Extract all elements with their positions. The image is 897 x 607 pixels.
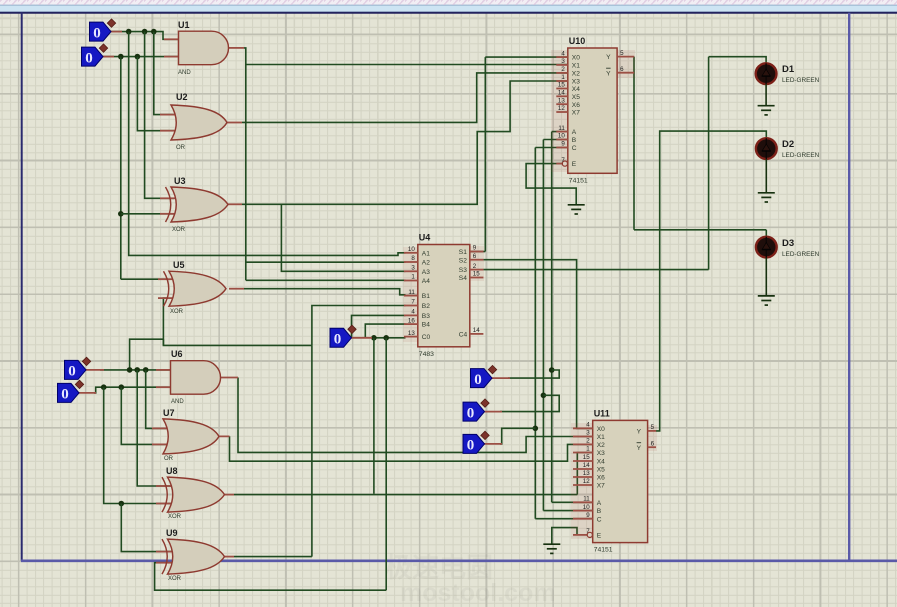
svg-text:10: 10 (583, 504, 590, 511)
svg-text:10: 10 (408, 246, 415, 253)
wire select B: U10.B to U11.B (542, 140, 544, 511)
svg-text:2: 2 (473, 263, 477, 270)
svg-text:6: 6 (620, 66, 624, 73)
wire net U4.S3 to LED column (483, 269, 708, 271)
wire net U10.X0 to U4.S1 (vertical x485.3) (484, 57, 486, 251)
svg-text:B4: B4 (422, 322, 430, 329)
svg-text:7: 7 (561, 157, 565, 164)
wire net U3.out to U10.X3 / X0 riser (242, 81, 568, 204)
svg-text:X4: X4 (572, 86, 580, 93)
svg-text:11: 11 (558, 125, 565, 132)
chip U10 74151 multiplexer (568, 48, 617, 173)
wire D1 riser x708.6 (708, 57, 710, 270)
wire net U11.Y to D2 (656, 131, 766, 431)
wire select A: U10.A to U11.A (551, 132, 553, 503)
logic toggle T2 (top, state 0) (100, 56, 114, 58)
wire net U7.out to U11.X2 (230, 436, 593, 461)
wire bus x103.7 to U8.in2 (104, 387, 172, 503)
svg-text:0: 0 (61, 387, 69, 403)
svg-text:4: 4 (411, 309, 415, 316)
LED D2 (756, 138, 777, 159)
svg-text:C4: C4 (459, 332, 468, 339)
wire net U10.Y/Ybar column to D3 (633, 57, 635, 230)
svg-text:9: 9 (586, 512, 590, 519)
wire net U3 line branch to U4.A3 (281, 204, 405, 271)
svg-text:B2: B2 (422, 303, 430, 310)
svg-text:11: 11 (583, 496, 590, 503)
svg-text:E: E (597, 533, 602, 540)
svg-text:B1: B1 (422, 293, 430, 300)
svg-text:14: 14 (558, 90, 565, 97)
svg-text:U3: U3 (174, 176, 186, 186)
op-amp U1 AND gate (164, 20, 244, 76)
svg-text:5: 5 (620, 50, 624, 57)
svg-text:U11: U11 (594, 408, 610, 418)
wire U5.in1 branch (121, 278, 168, 280)
svg-text:Y: Y (606, 70, 611, 77)
svg-text:C0: C0 (422, 334, 431, 341)
svg-text:X1: X1 (597, 434, 605, 441)
logic toggle T4 (bottom left, state 0) (80, 369, 104, 371)
wire branch C0 row down x373.9 (373, 338, 375, 494)
wire net TOGGLE2 row to U1.in2 (100, 56, 179, 58)
svg-text:U10: U10 (569, 36, 586, 46)
svg-text:8: 8 (411, 255, 415, 262)
svg-text:LED-GREEN: LED-GREEN (782, 152, 820, 159)
wire branch C0 row down x386.2 to U9.in2 run (385, 338, 387, 590)
svg-text:15: 15 (583, 454, 590, 461)
wire net U4.B3 from C0 row (352, 315, 406, 337)
svg-text:74151: 74151 (594, 547, 613, 554)
op-amp U6 AND gate (156, 349, 238, 405)
wire bus x145.7 to U7.in1 (146, 370, 166, 429)
wire into LED D3 (765, 230, 767, 237)
svg-text:LED-GREEN: LED-GREEN (782, 251, 820, 258)
svg-text:X4: X4 (597, 459, 605, 466)
svg-text:AND: AND (171, 399, 184, 405)
svg-text:14: 14 (473, 327, 480, 334)
svg-text:1: 1 (586, 446, 590, 453)
logic toggle T6 (select A, state 0) (488, 377, 510, 379)
svg-text:1: 1 (561, 74, 565, 81)
svg-text:AND: AND (178, 70, 191, 76)
wire net U9.in2 from C0 bus (bottom run) (155, 563, 387, 591)
svg-text:D2: D2 (782, 139, 794, 150)
op-amp U7 OR gate (152, 408, 230, 462)
svg-text:X7: X7 (572, 110, 580, 117)
svg-text:2: 2 (586, 438, 590, 445)
wire bus x153.8: toggle1 to U2.in1 (154, 32, 174, 115)
svg-text:74151: 74151 (569, 177, 588, 184)
wire U9.out riser x311.9 (311, 345, 313, 556)
svg-text:A2: A2 (422, 260, 430, 267)
wire net U8.out to U11.X3 (234, 494, 577, 496)
svg-text:7483: 7483 (419, 351, 434, 358)
ground GND-D3 (758, 295, 775, 297)
svg-text:15: 15 (473, 271, 480, 278)
node junction on U8.in2 row (119, 501, 125, 507)
svg-text:0: 0 (85, 50, 93, 66)
wire net U11.E to ground (552, 528, 577, 545)
op-amp U3 XOR gate (160, 176, 242, 233)
svg-text:3: 3 (586, 430, 590, 437)
wire bus x144.6: toggle1 to U3.in1 (145, 32, 174, 199)
logic toggle T7 (select B, state 0) (481, 411, 502, 413)
svg-text:XOR: XOR (168, 576, 182, 582)
svg-text:13: 13 (583, 470, 590, 477)
wire D2 to ground (765, 159, 767, 193)
logic toggle T3 (C0, state 0) (348, 337, 372, 339)
svg-text:4: 4 (586, 422, 590, 429)
svg-text:S3: S3 (459, 267, 467, 274)
wire net U6.out to U11.X1 (238, 378, 593, 453)
svg-text:E: E (572, 161, 577, 168)
ground GND-D2 (758, 192, 775, 194)
svg-text:mostool.com: mostool.com (400, 579, 556, 607)
svg-text:4: 4 (561, 50, 565, 57)
wire net toggleB1 row into U6.in1 (100, 369, 171, 371)
ground GND-D1 (758, 105, 775, 107)
wire bus x137.4: toggle2 to U2.in2 (137, 57, 174, 131)
wire U3.in2 branch (121, 213, 174, 215)
wire bus x120.8: toggle2 to U3.in2 and U5.in1 (120, 57, 122, 280)
svg-text:12: 12 (558, 105, 565, 112)
wire net U1.out to U10.X1 / U4.A2 / U4.A4 (244, 48, 246, 280)
chip U11 74151 multiplexer (593, 420, 648, 542)
svg-text:2: 2 (561, 66, 565, 73)
op-amp U5 XOR gate (158, 260, 244, 315)
svg-text:X0: X0 (572, 55, 580, 62)
svg-text:D3: D3 (782, 238, 794, 249)
svg-text:A: A (572, 129, 577, 136)
svg-text:10: 10 (558, 133, 565, 140)
svg-text:X3: X3 (597, 450, 605, 457)
svg-text:LED-GREEN: LED-GREEN (782, 77, 820, 84)
svg-text:A4: A4 (422, 278, 430, 285)
svg-text:A1: A1 (422, 250, 430, 257)
svg-text:9: 9 (561, 141, 565, 148)
ground GND-U10 (568, 204, 585, 206)
svg-text:0: 0 (68, 364, 76, 380)
svg-text:6: 6 (651, 440, 655, 447)
svg-text:X1: X1 (572, 63, 580, 70)
svg-text:D1: D1 (782, 64, 795, 75)
wire net U5.out to U4.B1 (244, 289, 406, 295)
svg-text:XOR: XOR (172, 227, 186, 233)
svg-text:X2: X2 (597, 442, 605, 449)
wire bus x128.7: toggle1 down to U4.A1 (129, 32, 406, 256)
svg-text:XOR: XOR (168, 514, 182, 520)
wire net U10.E to ground (526, 164, 576, 205)
svg-text:0: 0 (474, 372, 482, 388)
svg-text:OR: OR (164, 456, 174, 462)
svg-text:X5: X5 (572, 94, 580, 101)
node junction U3.in2 (118, 211, 124, 217)
wire net U4.B4 from C0 row (365, 324, 405, 338)
junction dots on C0 row (371, 335, 377, 341)
svg-text:9: 9 (473, 245, 477, 252)
wire D1 to ground (765, 84, 767, 106)
svg-text:U4: U4 (419, 233, 431, 243)
svg-text:B: B (597, 508, 602, 515)
svg-text:12: 12 (583, 478, 590, 485)
wire net TOGGLE1 row to U1.in1 (jog at x163) (108, 32, 179, 40)
wire toggleC jog to select C (500, 428, 535, 444)
svg-text:0: 0 (467, 405, 475, 421)
svg-text:14: 14 (583, 462, 590, 469)
wire toggleB jog to select B (500, 395, 559, 411)
svg-text:U5: U5 (173, 260, 185, 270)
svg-text:11: 11 (408, 289, 415, 296)
svg-text:U2: U2 (176, 92, 188, 102)
wire net U4.S2 to U11.X0 (483, 260, 592, 429)
logic toggle T1 (top, state 0) (108, 31, 122, 33)
wire D3 to ground (765, 258, 767, 296)
svg-text:Y: Y (637, 445, 642, 452)
svg-text:13: 13 (408, 330, 415, 337)
svg-text:0: 0 (93, 25, 101, 41)
logic toggle T5 (bottom left, state 0) (74, 392, 96, 394)
wire toggleA jog to select A (508, 370, 559, 378)
wire bus x137.2 to U8.in1 (137, 370, 172, 486)
svg-text:15: 15 (558, 82, 565, 89)
svg-text:OR: OR (176, 145, 186, 151)
svg-text:U9: U9 (166, 528, 178, 538)
svg-text:XOR: XOR (170, 309, 184, 315)
svg-text:C: C (597, 516, 602, 523)
svg-text:Y: Y (637, 429, 642, 436)
wire select C: U10.C to U11.C (534, 148, 536, 519)
svg-text:3: 3 (411, 265, 415, 272)
wire net U2.out up to U10.X2 (242, 73, 568, 123)
svg-text:13: 13 (558, 97, 565, 104)
svg-text:0: 0 (334, 332, 342, 348)
svg-text:B3: B3 (422, 313, 430, 320)
logic toggle T8 (select C, state 0) (481, 443, 502, 445)
svg-text:A3: A3 (422, 269, 430, 276)
svg-text:S2: S2 (459, 257, 467, 264)
svg-text:U6: U6 (171, 349, 183, 359)
svg-text:X6: X6 (597, 475, 605, 482)
svg-text:3: 3 (561, 58, 565, 65)
wire link toggleB1 bus to U5.in2 net (130, 339, 164, 370)
svg-text:X7: X7 (597, 483, 605, 490)
wire branch down to U9.in1 (121, 504, 172, 552)
svg-text:Y: Y (606, 54, 611, 61)
svg-text:7: 7 (411, 299, 415, 306)
svg-text:U7: U7 (163, 408, 175, 418)
wire into LED D1 (709, 57, 767, 64)
wire net toggleB2 jog into U6.in2 (94, 387, 171, 393)
wire net C0 toggle to U4.C0 (372, 337, 406, 339)
ground GND-U11 (543, 543, 560, 545)
svg-text:B: B (572, 137, 577, 144)
svg-text:1: 1 (411, 274, 415, 281)
wire net lower bus to U5.in2 / U4.B2 / U9.out riser (163, 298, 312, 345)
svg-text:X2: X2 (572, 71, 580, 78)
svg-text:X3: X3 (572, 79, 580, 86)
svg-text:6: 6 (473, 253, 477, 260)
svg-text:0: 0 (467, 438, 475, 454)
junction dots on toggle rows (126, 29, 132, 35)
op-amp U9 XOR gate (156, 528, 234, 582)
LED D3 (756, 237, 777, 258)
svg-text:S1: S1 (459, 249, 467, 256)
svg-text:5: 5 (651, 424, 655, 431)
svg-text:7: 7 (586, 528, 590, 535)
svg-text:S4: S4 (459, 275, 467, 282)
chip U4 7483 adder (418, 245, 470, 347)
svg-text:X6: X6 (572, 102, 580, 109)
svg-text:C: C (572, 145, 577, 152)
svg-text:X0: X0 (597, 426, 605, 433)
svg-text:U1: U1 (178, 20, 190, 30)
op-amp U8 XOR gate (156, 466, 234, 520)
op-amp U2 OR gate (160, 92, 242, 151)
svg-text:U8: U8 (166, 466, 178, 476)
LED D1 (756, 63, 777, 84)
svg-text:X5: X5 (597, 467, 605, 474)
svg-text:A: A (597, 500, 602, 507)
svg-text:16: 16 (408, 317, 415, 324)
wire bus x121.3 to U7.in2 (121, 387, 166, 444)
